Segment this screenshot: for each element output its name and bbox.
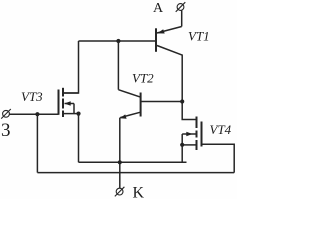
wire VT1 collector vertical down to VT4 drain <box>182 55 196 119</box>
wire top rail from VT3 drain branch to VT1 base <box>79 40 156 42</box>
svg-text:VT1: VT1 <box>188 29 210 44</box>
wire gate of VT3 from terminal 3 <box>9 113 58 115</box>
wire cathode rail <box>79 161 187 163</box>
transistor VT2 (NPN, mirrored) <box>118 90 182 119</box>
wire from gate junction down to gate rail <box>36 114 38 172</box>
svg-text:VT2: VT2 <box>132 71 154 86</box>
svg-text:K: K <box>133 185 145 200</box>
wire VT3 source down to cathode rail <box>78 114 80 163</box>
terminal 3 <box>1 109 11 119</box>
wire gate rail <box>37 172 234 174</box>
junction VT2 base on collector vertical <box>180 99 184 103</box>
svg-text:A: A <box>153 1 164 16</box>
svg-text:VT3: VT3 <box>21 89 43 104</box>
transistor VT4 (n-channel MOSFET, mirrored) <box>182 117 201 151</box>
wire gate rail right vertical up to VT4 gate <box>202 144 235 172</box>
wire K terminal drop <box>119 162 121 188</box>
wire VT2 collector vertical <box>117 41 119 90</box>
wire VT2 emitter vertical down to cathode rail <box>119 118 121 163</box>
terminal A <box>176 2 186 26</box>
wire left vertical from top rail down to VT3 drain <box>64 41 79 93</box>
junction VT3 source corner <box>76 112 80 116</box>
junction K terminal on cathode rail <box>118 160 122 164</box>
transistor VT1 (PNP) <box>156 27 183 56</box>
svg-text:VT4: VT4 <box>210 122 232 137</box>
svg-text:3: 3 <box>1 120 11 141</box>
transistor VT3 (n-channel MOSFET) <box>59 88 79 117</box>
wire VT4 source down to cathode rail <box>181 145 183 163</box>
terminal K <box>115 187 125 197</box>
junction gate wire branch down <box>35 112 39 116</box>
junction VT4 body-source <box>180 143 184 147</box>
junction top rail to VT2 collector <box>116 39 120 43</box>
